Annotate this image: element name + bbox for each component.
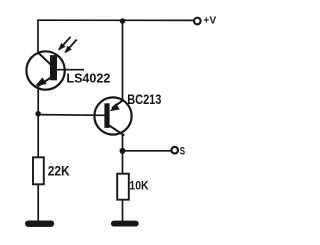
svg-text:22K: 22K bbox=[48, 163, 71, 179]
svg-text:10K: 10K bbox=[129, 180, 149, 193]
svg-text:LS4022: LS4022 bbox=[66, 70, 110, 85]
svg-text:+V: +V bbox=[203, 15, 216, 26]
svg-text:S: S bbox=[180, 145, 185, 156]
svg-text:BC213: BC213 bbox=[127, 92, 161, 107]
